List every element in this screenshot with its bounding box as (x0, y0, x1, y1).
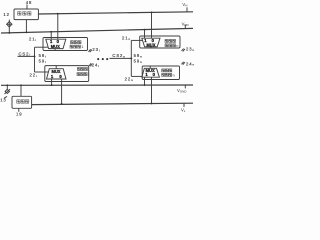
svg-text:VH: VH (182, 2, 187, 8)
svg-text:58n: 58n (134, 53, 143, 58)
svg-text:1: 1 (81, 45, 83, 49)
svg-text:MUX: MUX (51, 69, 60, 74)
svg-text:VGND: VGND (177, 88, 187, 94)
svg-text:1: 1 (88, 73, 90, 77)
svg-text:23i: 23i (92, 47, 100, 52)
svg-text:MUX: MUX (146, 42, 155, 47)
svg-text:CS2n: CS2n (112, 53, 125, 58)
svg-text:59n: 59n (134, 59, 143, 64)
svg-text:21i: 21i (29, 37, 37, 42)
svg-text:MUX: MUX (146, 68, 155, 73)
svg-text:24n: 24n (186, 61, 195, 66)
svg-text:24i: 24i (92, 63, 100, 68)
svg-text:MUX: MUX (51, 44, 60, 49)
svg-text:22n: 22n (125, 76, 134, 81)
svg-text:0: 0 (59, 74, 62, 79)
svg-text:21n: 21n (122, 35, 131, 40)
svg-text:19: 19 (16, 111, 22, 116)
svg-text:CS2i: CS2i (19, 51, 31, 56)
svg-text:59i: 59i (39, 58, 47, 63)
svg-text:VDD: VDD (182, 21, 190, 27)
svg-text:23n: 23n (186, 47, 195, 52)
svg-text:n: n (176, 44, 178, 48)
svg-text:22i: 22i (30, 73, 38, 78)
svg-text:12: 12 (3, 12, 9, 17)
svg-text:VL: VL (181, 108, 186, 114)
svg-text:13: 13 (0, 98, 6, 103)
svg-text:48: 48 (26, 0, 32, 5)
svg-text:1: 1 (51, 74, 54, 79)
svg-text:n: n (173, 73, 175, 77)
